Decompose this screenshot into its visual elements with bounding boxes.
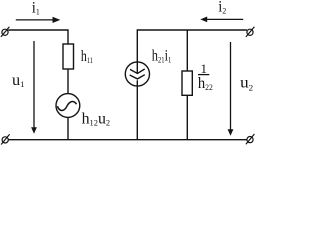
- wire bottom: [8, 139, 247, 141]
- fraction bar of 1/h22: [198, 74, 209, 76]
- wire source to bottom: [67, 117, 69, 139]
- resistor R 1/h22: [182, 71, 192, 95]
- terminal top-left: [1, 27, 10, 37]
- svg-text:1: 1: [200, 61, 207, 76]
- wire resistor to source: [67, 69, 69, 94]
- arrow u1: [31, 41, 37, 134]
- resistor R h11: [63, 44, 74, 69]
- terminal bottom-right: [246, 134, 255, 144]
- terminal bottom-left: [1, 134, 10, 144]
- arrow u2: [228, 42, 234, 136]
- wire current source to bottom: [136, 80, 138, 139]
- wire resistor 1/h22 to bottom: [186, 95, 188, 139]
- arrow i1: [16, 17, 61, 23]
- arrow i2: [200, 17, 243, 23]
- voltage source h12u2: [56, 94, 80, 118]
- current source h21i1: [125, 62, 149, 86]
- wire top-right segment: [137, 30, 247, 73]
- wire top to resistor 1/h22: [186, 30, 188, 71]
- wire top-left segment: [8, 30, 68, 44]
- terminal top-right: [246, 27, 255, 37]
